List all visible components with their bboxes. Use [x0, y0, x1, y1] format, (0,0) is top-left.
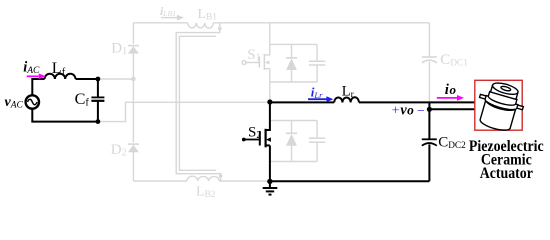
svg-text:+: + [392, 103, 400, 118]
inductor Lr [334, 97, 359, 102]
svg-text:vo: vo [400, 102, 414, 118]
inductor LB1 [188, 23, 214, 28]
wire inner return bracket [179, 36, 216, 170]
wire S1 snubber bottom rail [271, 81, 318, 83]
wire bottom rail right [219, 180, 268, 182]
wire switch node to Lr [270, 101, 334, 103]
svg-text:Actuator: Actuator [480, 165, 533, 182]
cap step ring [487, 92, 517, 108]
wire S1 snubber top rail [271, 43, 318, 45]
wire D-leg upper [132, 23, 134, 44]
wire LB1 right stub [219, 23, 221, 27]
arrow iLr [308, 96, 333, 102]
tab left [480, 94, 487, 99]
capacitor CDC1 [422, 56, 437, 58]
wire S1 leg lower [269, 69, 271, 101]
big cylinder [479, 100, 516, 133]
wire AC top [32, 79, 44, 95]
wire S2 snubber bottom rail [271, 161, 317, 163]
wire D-leg middle [132, 53, 134, 142]
node LB1-right [218, 27, 222, 31]
node Cf top [96, 77, 101, 82]
wire D-leg lower [132, 152, 134, 181]
node D-leg / Cf-top [131, 77, 136, 82]
wire AC bottom [32, 109, 98, 122]
cap cylinder [491, 85, 518, 99]
wire S2 snubber top rail [271, 120, 317, 122]
wire Cf-top to D-leg [100, 78, 133, 80]
source vAC [26, 95, 39, 108]
node switch [267, 99, 272, 104]
ground [269, 181, 271, 187]
capacitor Cf [97, 79, 99, 97]
diode D1 [128, 45, 139, 47]
wire Cf-bottom to switch node [100, 102, 267, 121]
inductor Lf [45, 74, 76, 79]
big cylinder shoulder [485, 100, 516, 113]
wire S1 leg upper [269, 23, 271, 55]
capacitor CDC2 [422, 138, 437, 140]
wire node stub [428, 102, 430, 109]
transistor S2 [266, 102, 270, 130]
wire node to CDC2 [428, 109, 430, 139]
cap top ellipse [491, 81, 519, 97]
wire top rail right segment [213, 22, 429, 24]
node Cf bottom [96, 119, 101, 124]
node ground [267, 179, 272, 184]
node output [427, 107, 432, 112]
capacitor S1 snubber [316, 44, 318, 61]
wire actuator return (lower) [429, 108, 475, 110]
wire Lr to actuator (upper) [359, 101, 476, 103]
wire Lf to Cf [76, 78, 98, 80]
diode D2 [128, 143, 139, 145]
wire CDC1 branch [428, 23, 430, 57]
svg-text:−: − [417, 103, 425, 118]
diode S1 antiparallel [291, 44, 293, 57]
svg-text:io: io [445, 82, 457, 98]
actuator drawing [472, 78, 528, 134]
wire top rail left segment [133, 22, 187, 24]
actuator box [475, 80, 522, 130]
wire outer return bracket [176, 30, 220, 175]
diode S2 antiparallel [291, 121, 293, 134]
wire bottom rail left [133, 180, 187, 182]
inductor LB2 [187, 176, 220, 181]
wire bottom rail [270, 180, 430, 182]
arrow io [437, 95, 464, 101]
arrow iLB1 [161, 17, 178, 19]
flange plate [484, 96, 518, 112]
node S2 gate [242, 138, 246, 142]
transistor S1 [264, 54, 269, 56]
node LB2-right [219, 174, 223, 178]
wire LB2 right stub [220, 178, 222, 182]
tab right [516, 105, 523, 110]
cap hole [501, 86, 512, 92]
arrow iAC [27, 73, 46, 79]
capacitor S2 snubber [316, 121, 318, 138]
